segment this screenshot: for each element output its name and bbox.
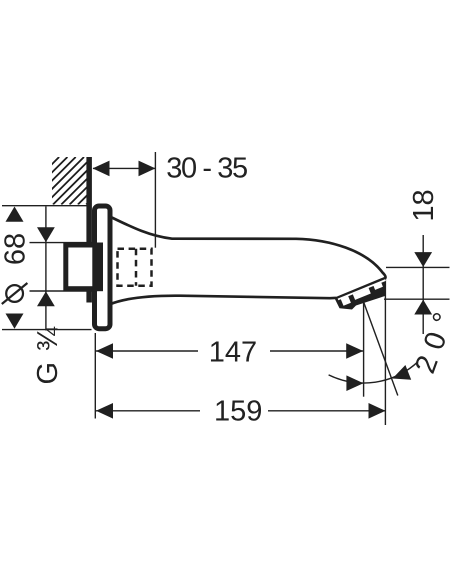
svg-text:68: 68 <box>0 233 32 265</box>
thread connector <box>66 245 95 289</box>
dim 30-35 line <box>93 167 155 169</box>
construction vertical line at outlet <box>363 297 365 397</box>
G3/4 tick bottom <box>30 290 96 292</box>
dim 147 right arrow <box>346 343 363 359</box>
escutcheon <box>95 206 111 329</box>
extension line top (O68) <box>2 205 91 207</box>
arc right arrowhead <box>393 365 412 380</box>
svg-text:¾: ¾ <box>32 326 64 351</box>
G3/4 dim line <box>45 206 47 330</box>
G3/4 upper arrow <box>37 227 55 242</box>
connector right collar <box>93 243 103 292</box>
wall hatching <box>12 157 134 205</box>
30-35 extension line (over spout) <box>154 152 156 248</box>
svg-text:18: 18 <box>408 189 440 221</box>
tilted 20 deg line <box>363 300 398 396</box>
svg-text:G: G <box>32 362 64 385</box>
dim 147 left arrow <box>96 343 113 359</box>
dim 18 line <box>422 235 424 334</box>
aerator window right <box>373 282 383 290</box>
arc left arrowhead <box>346 375 363 391</box>
dim O68 top arrow <box>6 207 24 222</box>
dim 159 line <box>96 410 200 412</box>
aerator block <box>335 278 385 310</box>
aerator face white gap line <box>338 280 386 299</box>
wall line <box>86 157 92 303</box>
svg-text:30 - 35: 30 - 35 <box>166 153 247 185</box>
spout body <box>110 217 386 305</box>
dim 18 lower arrow <box>414 300 432 315</box>
dim 159 right arrow <box>369 403 386 419</box>
159 extension line (spout tip) <box>384 278 386 426</box>
svg-text:159: 159 <box>214 395 262 427</box>
G3/4 lower arrow <box>37 291 55 306</box>
dim 18 upper arrow <box>414 252 432 267</box>
G3/4 tick top <box>30 242 96 244</box>
dashed thread rect <box>118 249 152 286</box>
dim 18 tick top <box>386 266 450 268</box>
angle arc <box>329 362 418 383</box>
aerator window big <box>353 288 371 300</box>
dim 30-35 right arrow <box>139 161 156 177</box>
left extension line (147/159) <box>94 333 96 419</box>
dim 147 line <box>96 350 198 352</box>
aerator notch left <box>341 296 351 306</box>
dim 30-35 left arrow <box>93 161 110 177</box>
dim 18 tick bottom <box>384 298 450 300</box>
dim 159 left arrow <box>96 403 113 419</box>
extension line bottom (O68) <box>2 329 92 331</box>
svg-text:147: 147 <box>209 336 257 368</box>
dim O68 bottom arrow <box>6 314 24 329</box>
